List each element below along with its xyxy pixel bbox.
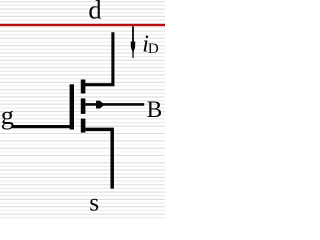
svg-text:B: B (147, 97, 163, 123)
svg-text:g: g (1, 100, 14, 130)
svg-text:d: d (88, 0, 101, 25)
svg-text:s: s (89, 188, 99, 217)
svg-text:D: D (148, 41, 159, 57)
